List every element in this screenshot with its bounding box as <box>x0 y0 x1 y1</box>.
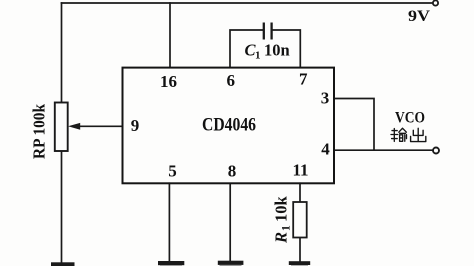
svg-text:11: 11 <box>292 161 308 180</box>
label 输出 (output) hanzi 输 <box>391 128 407 141</box>
svg-text:10k: 10k <box>272 196 291 223</box>
wire left rail down to potentiometer <box>61 3 63 103</box>
svg-text:R: R <box>272 232 291 244</box>
svg-text:5: 5 <box>168 162 177 181</box>
svg-text:VCO: VCO <box>395 110 425 127</box>
svg-text:6: 6 <box>226 71 235 90</box>
resistor R1 body <box>293 202 307 238</box>
wire top supply rail <box>62 2 432 4</box>
svg-text:1: 1 <box>255 50 261 62</box>
svg-text:RP 100k: RP 100k <box>30 103 49 159</box>
wire pin 4 to output terminal <box>334 149 433 151</box>
svg-text:8: 8 <box>228 162 237 181</box>
svg-text:1: 1 <box>281 225 293 231</box>
wire pin 16 to supply rail <box>169 3 171 68</box>
label 输出 (output) hanzi 出 <box>411 128 426 141</box>
svg-text:CD4046: CD4046 <box>202 116 256 136</box>
wire potentiometer to ground <box>61 151 63 263</box>
ground (R1) <box>289 261 310 265</box>
svg-text:9: 9 <box>131 116 140 135</box>
label R1 10k <box>272 196 293 245</box>
svg-text:7: 7 <box>299 70 308 89</box>
svg-text:4: 4 <box>321 140 330 159</box>
terminal 9V <box>433 0 438 5</box>
svg-text:16: 16 <box>160 72 177 91</box>
ground (pin 5) <box>158 261 184 265</box>
wire pin 5 to ground <box>168 183 170 261</box>
terminal VCO output <box>433 148 439 154</box>
IC U1 CD4046 body <box>123 68 335 184</box>
label C1 10n <box>245 41 290 62</box>
wire pin 6 up to capacitor <box>230 30 263 68</box>
wire R1 to ground <box>299 238 301 262</box>
wire pin 11 to resistor R1 <box>299 183 301 202</box>
wire pot wiper to pin 9 <box>79 125 123 127</box>
svg-text:9V: 9V <box>408 8 431 25</box>
svg-text:10n: 10n <box>264 41 290 60</box>
wire pin 3 to pin 4 junction <box>334 99 374 151</box>
ground (pin 8) <box>218 261 244 265</box>
wire pin 8 to ground <box>229 183 231 261</box>
svg-text:3: 3 <box>321 89 330 108</box>
ground (potentiometer) <box>51 262 75 266</box>
capacitor C1 plates <box>264 23 272 40</box>
potentiometer RP wiper arrow <box>68 123 80 130</box>
potentiometer RP body <box>55 103 68 152</box>
wire capacitor to pin 7 <box>273 30 300 68</box>
